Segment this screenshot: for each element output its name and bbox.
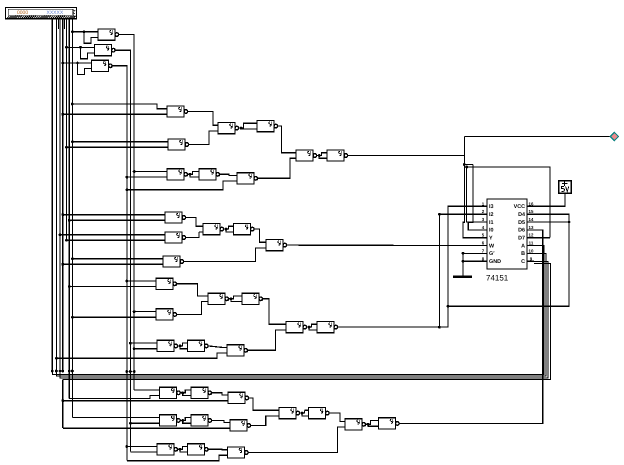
wire U37 out to U38 (tied) [300, 412, 303, 414]
junction output net D7 branch [465, 166, 468, 169]
NAND gate U39 [341, 419, 366, 430]
svg-text:C: C [521, 259, 525, 265]
wire U29 out to U30 upper [212, 393, 224, 395]
wire U17 out to pin6 W [287, 244, 480, 247]
NAND gate U5 [164, 139, 189, 150]
NAND gate U11 [292, 150, 317, 161]
wire GND pin8 to ground [462, 260, 465, 263]
svg-text:14: 14 [529, 217, 534, 222]
svg-text:Y: Y [489, 236, 493, 242]
svg-text:13: 13 [529, 225, 534, 230]
svg-text:16: 16 [529, 201, 534, 206]
wire bottom line to U36 lower [127, 455, 224, 460]
wire pin13 D6 to U40 out [399, 230, 543, 424]
wire bus to inverter U3 [61, 62, 64, 65]
wire inverter U2 output rail [115, 50, 130, 451]
wire rail2 to U34 lower [130, 451, 153, 453]
wire U31 out to U32 (tied) [180, 419, 183, 421]
wire output net down to Y pin5 [463, 156, 480, 238]
wire bundle D (bus4) [61, 370, 64, 373]
wire U16 out to U17 upper [254, 229, 262, 242]
svg-text:I3: I3 [489, 204, 494, 210]
NAND gate U27 (inverter) [313, 322, 338, 333]
wire U35 out to U36 upper [208, 448, 223, 450]
svg-text:G′: G′ [489, 251, 495, 257]
svg-text:D7: D7 [518, 236, 525, 242]
wire bundle B (bus2 to 74151 pin10) [55, 370, 58, 373]
wire U22 out to U26 upper [263, 299, 282, 325]
wire bus to inverter U1 [71, 30, 74, 33]
NAND gate U24 (inverter) [184, 340, 209, 351]
NAND gate U13 [161, 212, 186, 223]
wire U34 out to U35 (tied) [178, 448, 181, 450]
wire bus to U4 lower input [61, 113, 64, 116]
NAND gate U28 [156, 387, 181, 398]
wire G pin7 to ground [462, 252, 465, 255]
wire bus4 to U30/U33 feeds [61, 399, 64, 402]
wire U13 out to U15 upper [186, 218, 199, 227]
wire pin14 D5 row [568, 221, 571, 224]
wire U11 out to U12 (tied) [317, 155, 320, 157]
junction bus7 at bundle [71, 370, 74, 373]
ground [462, 253, 464, 276]
wire rail3 to U10 lower [126, 188, 129, 191]
NAND gate U8 [163, 169, 188, 180]
wire bus to U31 upper [72, 417, 155, 419]
NAND gate U23 [153, 340, 178, 351]
wire rail3 to U8 lower [126, 176, 129, 179]
wire rail3 to U19 upper [126, 280, 129, 283]
wire connector drop 9 [64, 19, 66, 29]
wire bus to U33 lower [63, 427, 226, 429]
wire bus to inverter U2 [65, 46, 68, 49]
svg-text:I2: I2 [489, 212, 494, 218]
NAND gate U33 [226, 420, 251, 431]
wire U26 out to U27 (tied) [307, 326, 310, 328]
wire pin15 D4 net [448, 214, 569, 306]
wire rail2 to U31 lower [129, 422, 132, 425]
wire U7 out to U11 upper [278, 126, 292, 153]
NAND gate U10 [233, 173, 258, 184]
wire inverter U1 output rail [119, 35, 135, 390]
wire U25 out to U26 lower [248, 330, 282, 350]
wire inverter U3 output rail [112, 66, 127, 461]
wire U14 out to U15 lower [186, 232, 199, 238]
wire U20 out to U21 lower [177, 302, 204, 315]
wire U32 out to U33 upper [212, 420, 226, 422]
NAND gate U38 (inverter) [305, 408, 330, 419]
wire bus to U20 lower [71, 316, 74, 319]
wire bus line 1 [51, 19, 53, 371]
NAND gate U7 (inverter) [253, 121, 278, 132]
NAND gate U12 (inverter) [323, 150, 348, 161]
wire bus line 3 [59, 19, 61, 371]
wire U19 out to U21 upper [177, 284, 204, 296]
NAND gate U31 [156, 415, 181, 426]
wire U36 out to U39 lower [248, 427, 341, 452]
NAND gate U18 [159, 256, 184, 267]
wire bus line 7 [71, 19, 73, 371]
NAND gate U36 [224, 447, 249, 458]
svg-text:D6: D6 [518, 228, 525, 234]
wire U8 out to U9 (tied) [188, 173, 191, 175]
NAND gate U29 (inverter) [187, 387, 212, 398]
svg-text:XXXXX: XXXXX [47, 10, 64, 16]
svg-text:11: 11 [529, 241, 534, 246]
NAND gate U25 [223, 345, 248, 356]
wire bus to U14 lower [65, 239, 68, 242]
NAND gate U32 (inverter) [187, 415, 212, 426]
wire U9 out to U10 upper [220, 174, 233, 175]
wire bus to U18 lower [61, 263, 64, 266]
wire bus line 4 [62, 19, 64, 371]
wire bus to U5 upper input [71, 140, 74, 143]
wire U39 out to U40 (tied) [366, 423, 369, 425]
wire bus to U13 upper [61, 213, 64, 216]
wire bundle A (bus1 to 74151 pin11) [51, 370, 54, 373]
wire bundle C (bus3 to 74151 pin9) [59, 370, 62, 373]
wire U18 out to U17 lower [184, 248, 262, 262]
svg-text:GND: GND [489, 259, 501, 265]
NAND gate U15 [199, 224, 224, 235]
NAND gate U20 [152, 309, 177, 320]
wire U28 out to U29 (tied) [180, 392, 183, 394]
wire output net to pin3 D1 [467, 167, 480, 222]
wire U27 out to pin1 D3 [338, 206, 480, 327]
NAND gate U21 [204, 293, 229, 304]
connector / logic input port J1 [6, 8, 77, 19]
wire rail1 to U28 upper [134, 389, 156, 391]
wire riser to pin4 D0 [468, 165, 480, 230]
svg-text:VCC: VCC [514, 204, 525, 210]
wire U12 out to output node [348, 155, 465, 157]
wire bus to U19 lower [68, 285, 71, 288]
svg-text:10: 10 [529, 248, 534, 253]
wire U6 out to U7 (tied) [239, 127, 242, 129]
NAND gate U3 (inverter) [88, 60, 113, 71]
NAND gate U35 (inverter) [184, 444, 209, 455]
wire connector drop 8 [57, 19, 59, 29]
wire bus line 6 [68, 19, 70, 371]
output terminal [610, 132, 618, 140]
wire pin2 D2 net [438, 213, 441, 216]
NAND gate U26 [282, 322, 307, 333]
NAND gate U30 [224, 392, 249, 403]
NAND gate U6 [214, 123, 239, 134]
junction bus6 at bundle [68, 370, 71, 373]
wire rail2 to U23 upper [129, 342, 132, 345]
svg-text:I0: I0 [489, 228, 494, 234]
74151 multiplexer U41 [480, 199, 534, 269]
NAND gate U40 (inverter) [375, 418, 400, 429]
wire rail1 to U20 upper [133, 310, 136, 313]
wire U15 out to U16 (tied) [224, 228, 227, 230]
wire U24 out to U25 upper [208, 346, 223, 348]
NAND gate U37 [275, 408, 300, 419]
NAND gate U1 (inverter) [94, 29, 119, 40]
wire bus line 5 [66, 19, 68, 241]
svg-text:12: 12 [529, 233, 534, 238]
wire branch to pin12 D7 [464, 166, 466, 168]
NAND gate U17 [262, 240, 287, 251]
wire U38 out to U39 upper [329, 413, 341, 421]
wire bus to U5 lower input [65, 146, 68, 149]
wire rail1 to U8 upper [133, 170, 136, 173]
wire bus6 to U28 feed [68, 371, 70, 398]
wire bus line 2 [55, 19, 57, 371]
svg-text:D5: D5 [518, 220, 525, 226]
NAND gate U19 [152, 278, 177, 289]
junction rail3 at bundle [126, 370, 129, 373]
wire VCC pin16 to 5V [534, 193, 565, 206]
wire U5 out to U6 lower [189, 131, 214, 145]
junction rail1 at bundle [133, 370, 136, 373]
svg-text:I1: I1 [489, 220, 494, 226]
wire output riser to terminal [463, 137, 465, 156]
wire rail1 to U23 lower [133, 347, 136, 350]
NAND gate U2 (inverter) [91, 45, 116, 56]
wire bus to U18 upper [71, 257, 74, 260]
wire pin12 D7 row [534, 237, 550, 239]
wire U33 out to U37 lower [251, 416, 275, 426]
wire U21 out to U22 (tied) [229, 298, 232, 300]
junction rail2 at bundle [129, 370, 132, 373]
wire bus7 to U31 feed [71, 371, 73, 418]
wire U4 out to U6 upper [188, 112, 214, 126]
NAND gate U14 [161, 232, 186, 243]
wire U10 out to U11 lower [258, 158, 292, 178]
wire rail3 to U34 upper [126, 445, 129, 448]
svg-text:A: A [521, 243, 525, 249]
svg-text:15: 15 [529, 209, 534, 214]
wire bus to U30 lower [61, 399, 64, 402]
svg-text:74151: 74151 [486, 274, 509, 283]
wire bus to U14 upper [59, 233, 62, 236]
wire bus to U28 lower [69, 396, 155, 399]
wire U30 out to U37 upper [249, 398, 275, 410]
NAND gate U22 (inverter) [238, 293, 263, 304]
NAND gate U34 [153, 444, 178, 455]
svg-text:D4: D4 [518, 212, 525, 218]
svg-text:0000: 0000 [17, 10, 28, 16]
wire bus to U4 upper input [71, 103, 74, 106]
power source 5V [559, 181, 571, 193]
wire bus to U13 lower [68, 219, 71, 222]
NAND gate U9 (inverter) [195, 169, 220, 180]
wire U23 out to U24 (tied) [178, 345, 181, 347]
NAND gate U16 (inverter) [230, 224, 255, 235]
junction D3/D4 net [447, 305, 450, 308]
junction at jog [463, 163, 466, 166]
wire terminal lead [464, 136, 611, 138]
NAND gate U4 [163, 106, 188, 117]
wire bus to U25 lower [55, 357, 58, 360]
svg-text:B: B [521, 251, 525, 257]
